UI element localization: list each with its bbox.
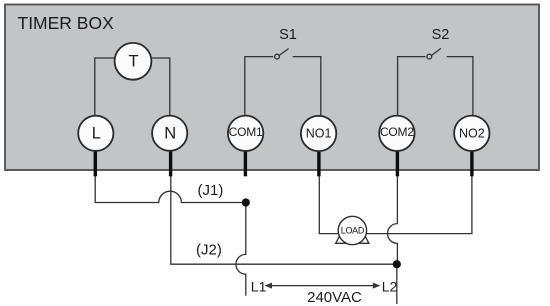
svg-text:240VAC: 240VAC — [307, 289, 362, 306]
svg-text:T: T — [128, 53, 138, 71]
svg-text:(J2): (J2) — [196, 242, 222, 259]
svg-text:L: L — [92, 125, 101, 143]
svg-text:NO2: NO2 — [459, 126, 485, 140]
svg-text:(J1): (J1) — [198, 182, 224, 199]
svg-text:L2: L2 — [382, 279, 398, 295]
svg-text:S1: S1 — [279, 27, 297, 43]
svg-text:COM1: COM1 — [229, 125, 263, 139]
svg-text:TIMER BOX: TIMER BOX — [18, 13, 115, 33]
svg-text:L1: L1 — [251, 279, 267, 295]
svg-text:S2: S2 — [432, 27, 450, 43]
svg-text:N: N — [164, 125, 176, 143]
svg-text:COM2: COM2 — [380, 125, 414, 139]
svg-text:LOAD: LOAD — [341, 226, 365, 236]
svg-text:NO1: NO1 — [306, 126, 332, 140]
